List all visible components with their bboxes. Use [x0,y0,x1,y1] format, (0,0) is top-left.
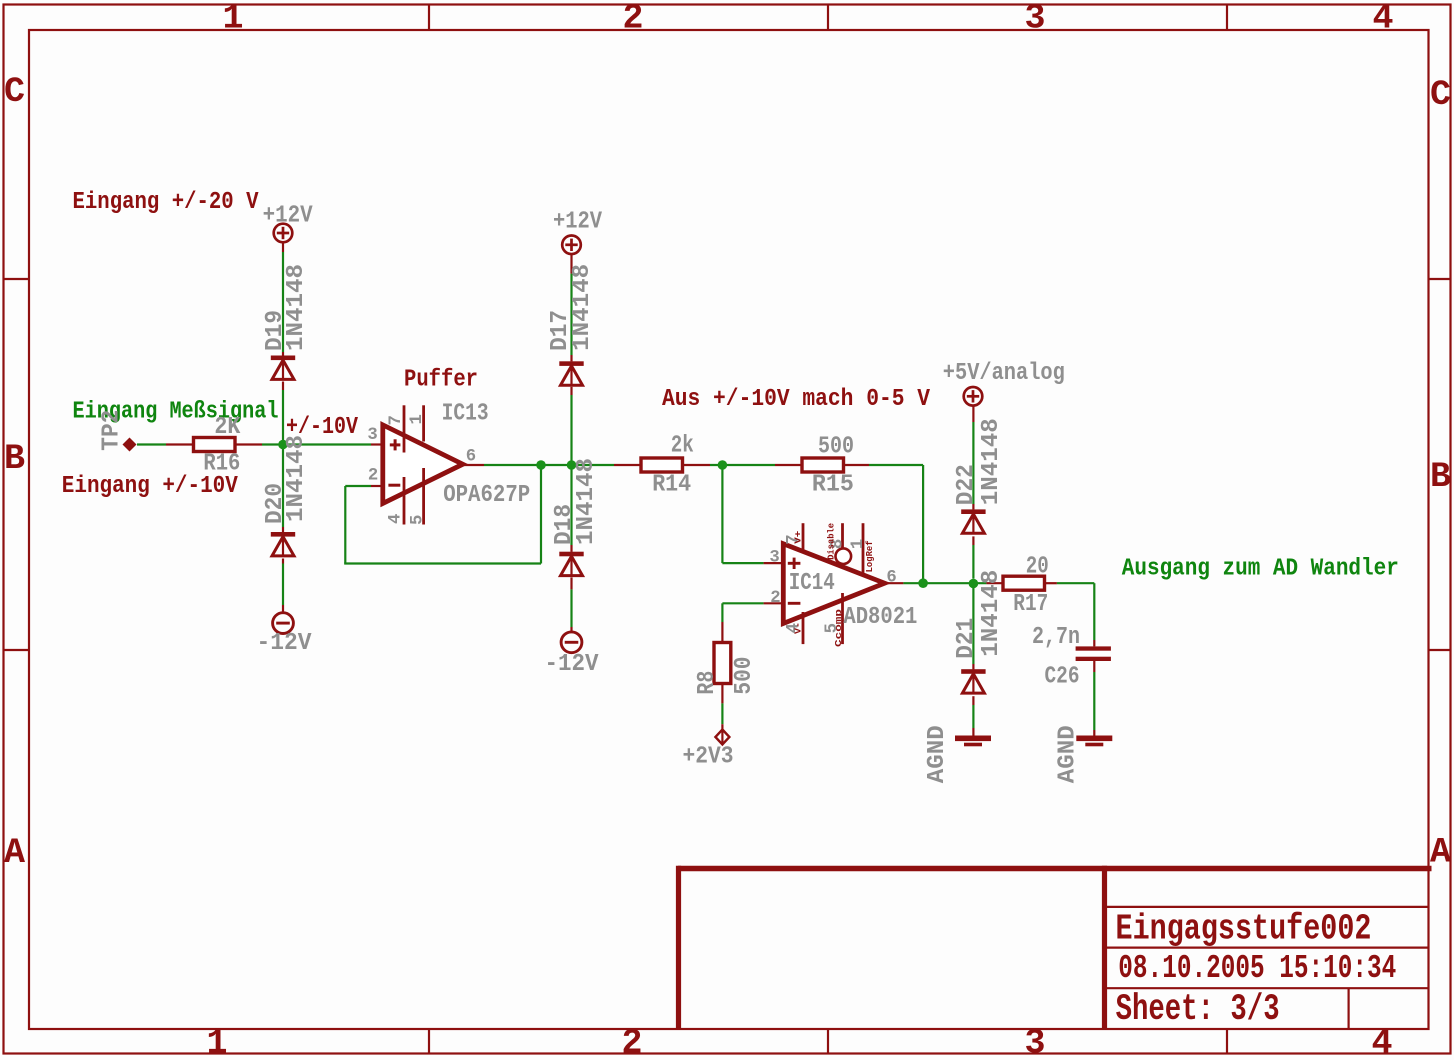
svg-text:3: 3 [1024,1024,1045,1060]
svg-text:+12V: +12V [553,209,603,236]
svg-text:-12V: -12V [545,651,600,678]
svg-text:AD8021: AD8021 [843,604,917,631]
svg-text:C: C [1430,75,1451,115]
svg-text:Ccomp: Ccomp [833,609,844,647]
svg-text:R8: R8 [694,671,721,695]
svg-text:A: A [1430,833,1451,873]
svg-text:5: 5 [408,515,427,525]
svg-text:AGND: AGND [924,725,951,783]
svg-text:IC13: IC13 [442,401,489,428]
svg-text:3: 3 [367,426,377,445]
svg-text:1: 1 [222,0,243,39]
svg-text:Aus +/-10V mach 0-5 V: Aus +/-10V mach 0-5 V [662,386,931,413]
svg-text:D22: D22 [953,464,980,505]
svg-text:+5V/analog: +5V/analog [943,360,1065,387]
svg-text:08.10.2005 15:10:34: 08.10.2005 15:10:34 [1118,950,1396,987]
svg-text:D21: D21 [953,618,980,659]
svg-text:Ausgang zum AD Wandler: Ausgang zum AD Wandler [1122,556,1399,583]
svg-text:C26: C26 [1045,664,1080,691]
svg-text:1N4148: 1N4148 [283,435,310,522]
svg-text:4: 4 [1372,0,1393,39]
svg-text:OPA627P: OPA627P [443,482,530,509]
svg-text:Eingagsstufe002: Eingagsstufe002 [1116,909,1372,950]
svg-text:1N4148: 1N4148 [978,570,1005,657]
svg-text:6: 6 [886,568,896,587]
svg-text:3: 3 [769,549,779,568]
svg-text:20: 20 [1026,554,1049,581]
svg-text:A: A [4,833,25,873]
svg-text:1N4148: 1N4148 [978,418,1005,505]
svg-text:R17: R17 [1013,591,1048,618]
svg-text:2,7n: 2,7n [1032,624,1080,651]
svg-text:B: B [4,439,25,479]
svg-text:LogRef: LogRef [864,540,875,572]
svg-text:500: 500 [731,657,758,695]
svg-text:+2V3: +2V3 [683,744,734,771]
svg-text:2K: 2K [214,414,241,441]
svg-text:AGND: AGND [1055,725,1082,783]
svg-text:1N4148: 1N4148 [573,458,600,545]
svg-text:2: 2 [770,589,780,608]
svg-text:1: 1 [206,1024,227,1060]
svg-text:+12V: +12V [263,203,314,230]
svg-text:Eingang +/-20 V: Eingang +/-20 V [73,189,260,216]
svg-text:4: 4 [1371,1024,1392,1060]
svg-text:R15: R15 [812,472,854,499]
svg-text:R14: R14 [652,472,691,499]
svg-text:R16: R16 [203,451,240,478]
svg-text:Puffer: Puffer [404,367,478,394]
svg-text:1: 1 [408,414,427,424]
svg-text:Sheet: 3/3: Sheet: 3/3 [1116,989,1280,1031]
svg-text:V+: V+ [792,530,803,543]
svg-text:-12V: -12V [257,630,313,657]
svg-text:IC14: IC14 [789,570,835,597]
svg-text:2: 2 [368,466,378,485]
svg-text:7: 7 [387,415,406,425]
svg-text:6: 6 [466,448,476,467]
svg-text:TP2: TP2 [98,410,125,451]
svg-text:B: B [1430,457,1451,497]
svg-text:1N4148: 1N4148 [283,264,310,351]
svg-text:2: 2 [622,0,643,39]
svg-text:V-: V- [792,622,803,634]
svg-text:2: 2 [621,1024,642,1060]
svg-text:Disable: Disable [826,523,837,560]
svg-text:4: 4 [387,514,406,524]
svg-text:500: 500 [818,434,854,461]
svg-text:C: C [4,72,25,112]
svg-text:2k: 2k [671,433,694,460]
svg-text:3: 3 [1024,0,1045,39]
svg-text:1N4148: 1N4148 [569,264,596,351]
